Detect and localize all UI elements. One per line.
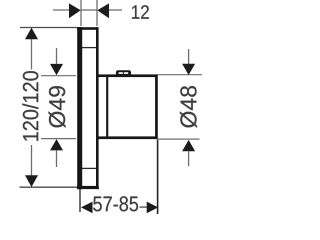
wire 12-dim extension line left [80,0,82,26]
dimension dash 57-85 right [140,206,148,208]
wire plate inner line bottom [82,167,96,169]
wire bottom extension line left (plate bottom, 120 dim) [20,186,78,188]
arrowhead 120/120 top [25,28,38,40]
arrow tail O49 upper [56,48,58,65]
label O48 [180,86,197,128]
arrowhead O48 lower [182,140,195,151]
label O49 [49,86,66,128]
dimension line 120/120 lower segment [31,145,33,178]
arrowhead 57-85 right [147,202,159,214]
arrow tail O48 lower [188,151,190,166]
pill slot left [119,72,123,74]
label 12 [132,5,149,19]
arrowhead O49 upper [50,64,63,75]
wire O49 bottom extension line [41,138,76,140]
arrowhead 120/120 bottom [25,175,38,187]
handle top edge [97,74,158,77]
escutcheon plate slab (filled side profile) [77,27,82,189]
arrow tail 12-dim right [109,9,122,11]
handle front edge [155,74,158,139]
arrow tail 12-dim left [53,9,70,11]
pill button on handle top [116,70,131,76]
wire plate top edge [77,27,98,30]
pill slot right [124,72,128,74]
wire top extension line left (plate top, 120 dim) [20,27,77,29]
label 57-85 [93,196,138,211]
arrowhead 12-dim left [69,3,81,18]
handle bottom edge [97,136,158,139]
arrowhead 12-dim right [97,3,109,18]
wire O49 top extension line [41,75,76,77]
dimension line 120/120 upper segment [31,36,33,70]
wire handle inner joint line [106,76,108,137]
wire plate inner line top [82,47,96,49]
wire O48 bottom extension line [158,138,200,140]
wire O48 top extension line [158,74,202,76]
arrow tail O48 upper [188,49,190,65]
wire 57-85 right extension line (handle front drop) [157,140,159,215]
arrowhead 57-85 left [81,202,93,214]
wire 12-dim extension line right [96,0,98,26]
label 120/120 [22,71,38,141]
wire plate right edge [96,27,99,189]
arrow tail O49 lower [56,150,58,167]
dimension line 12-dim inner [81,9,97,11]
wire plate bottom edge [77,186,99,189]
wire 57-85 left extension line [79,189,81,212]
arrowhead O48 upper [182,64,195,75]
arrowhead O49 lower [50,139,63,150]
